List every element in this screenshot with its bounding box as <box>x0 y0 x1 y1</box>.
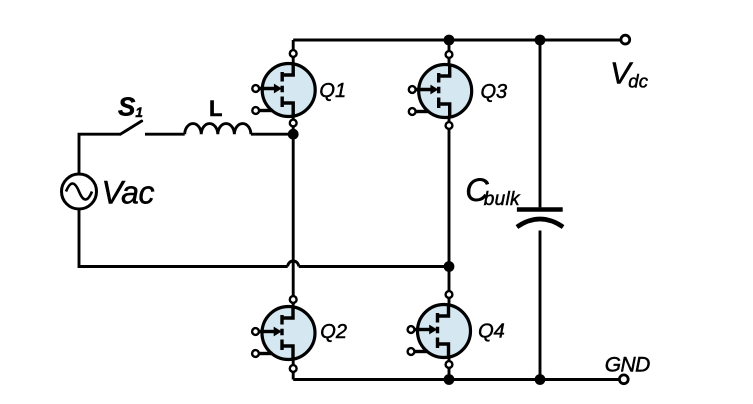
svg-text:L: L <box>209 96 222 121</box>
svg-text:Q4: Q4 <box>478 320 505 342</box>
svg-text:GND: GND <box>605 353 650 376</box>
svg-text:Q2: Q2 <box>320 321 347 343</box>
svg-text:S1: S1 <box>118 92 143 122</box>
svg-text:Cbulk: Cbulk <box>465 172 521 210</box>
svg-text:Q3: Q3 <box>481 81 508 103</box>
svg-text:Q1: Q1 <box>319 80 346 102</box>
svg-text:Vac: Vac <box>102 175 155 211</box>
svg-text:Vdc: Vdc <box>610 56 649 92</box>
